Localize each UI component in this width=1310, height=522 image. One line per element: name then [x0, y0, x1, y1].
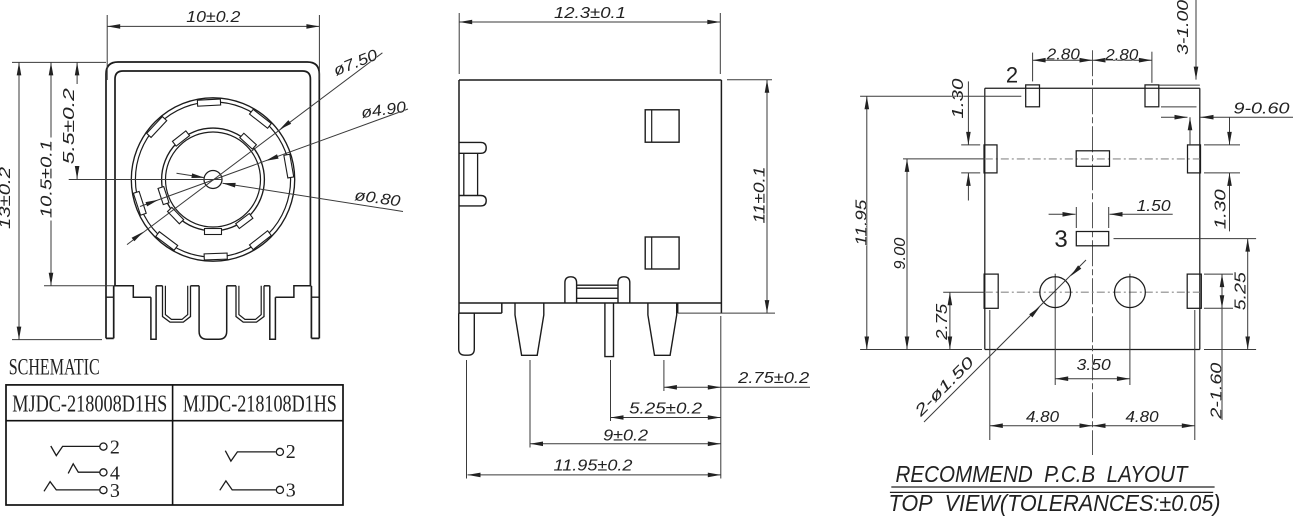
svg-text:3.50: 3.50 [1077, 357, 1111, 374]
svg-text:10±0.2: 10±0.2 [186, 9, 240, 26]
svg-text:9.00: 9.00 [892, 237, 909, 269]
svg-text:SCHEMATIC: SCHEMATIC [9, 355, 100, 380]
svg-text:RECOMMEND P.C.B LAYOUT: RECOMMEND P.C.B LAYOUT [896, 461, 1190, 487]
svg-text:11±0.1: 11±0.1 [752, 167, 769, 224]
svg-text:1.50: 1.50 [1137, 198, 1171, 215]
svg-text:2: 2 [110, 437, 120, 459]
svg-text:9±0.2: 9±0.2 [603, 428, 648, 445]
svg-text:2-1.60: 2-1.60 [1209, 362, 1226, 420]
svg-text:4.80: 4.80 [1126, 409, 1159, 426]
svg-text:TOP VIEW(TOLERANCES:±0.05): TOP VIEW(TOLERANCES:±0.05) [889, 490, 1221, 516]
svg-text:2.75: 2.75 [934, 303, 951, 341]
svg-text:3: 3 [110, 480, 120, 502]
svg-text:MJDC-218008D1HS: MJDC-218008D1HS [12, 392, 167, 418]
svg-text:2: 2 [286, 441, 296, 463]
svg-text:4.80: 4.80 [1026, 409, 1059, 426]
svg-text:11.95: 11.95 [853, 199, 870, 245]
svg-text:1.30: 1.30 [1213, 189, 1230, 229]
svg-text:5.25±0.2: 5.25±0.2 [629, 401, 702, 418]
svg-text:9-0.60: 9-0.60 [1234, 101, 1290, 118]
svg-text:2.75±0.2: 2.75±0.2 [737, 370, 810, 387]
svg-text:3: 3 [286, 480, 296, 502]
svg-text:3: 3 [1054, 226, 1067, 253]
svg-text:12.3±0.1: 12.3±0.1 [554, 5, 626, 22]
svg-text:10.5±0.1: 10.5±0.1 [38, 140, 55, 218]
svg-text:11.95±0.2: 11.95±0.2 [554, 457, 633, 474]
svg-text:3-1.00: 3-1.00 [1175, 0, 1192, 55]
svg-text:5.25: 5.25 [1233, 272, 1250, 310]
svg-text:13±0.2: 13±0.2 [0, 167, 14, 229]
svg-text:MJDC-218108D1HS: MJDC-218108D1HS [183, 392, 337, 418]
svg-text:2: 2 [1006, 63, 1018, 88]
svg-text:5.5±0.2: 5.5±0.2 [61, 88, 78, 165]
svg-text:2.80: 2.80 [1046, 47, 1081, 64]
svg-text:2.80: 2.80 [1104, 47, 1139, 64]
svg-text:1.30: 1.30 [950, 78, 967, 118]
